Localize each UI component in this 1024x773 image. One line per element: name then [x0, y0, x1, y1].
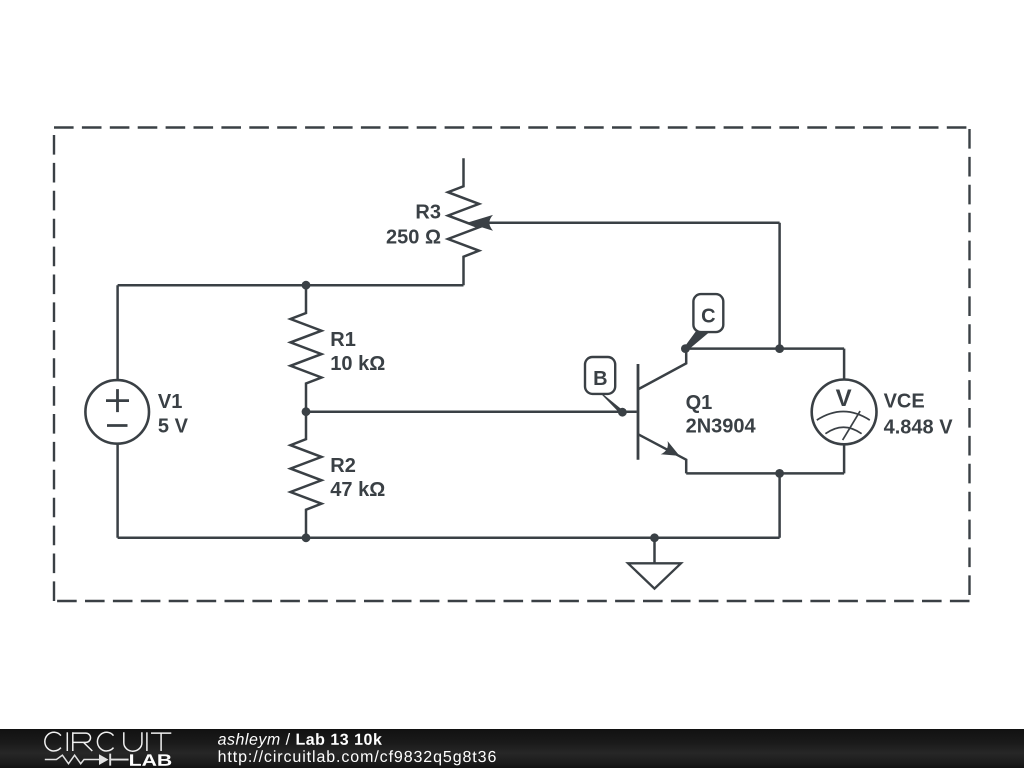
junction node base — [302, 407, 311, 416]
voltage source V1 — [85, 380, 149, 444]
wire emitter rail — [686, 472, 844, 475]
voltmeter VCE — [812, 380, 877, 445]
svg-text:http://circuitlab.com/cf9832q5: http://circuitlab.com/cf9832q5g8t36 — [218, 749, 498, 766]
wire V1 bottom lead — [116, 444, 119, 538]
node label B — [585, 357, 624, 414]
wire V1 top lead — [116, 285, 119, 379]
transistor Q1 — [638, 349, 686, 474]
junction node R2 bottom — [302, 533, 311, 542]
ground — [628, 538, 681, 589]
node label C — [684, 294, 723, 350]
junction node wiper-collector — [775, 344, 784, 353]
wire top rail node A — [118, 284, 464, 287]
potentiometer R3 — [448, 158, 493, 285]
wire collector rail — [685, 347, 844, 350]
wire wiper drop vertical — [778, 223, 781, 349]
svg-text:LAB: LAB — [129, 752, 173, 768]
wire voltmeter top lead — [843, 349, 846, 380]
logo resistor-diode squiggle — [45, 754, 129, 766]
dashed selection border — [54, 128, 970, 602]
resistor R2 — [291, 412, 322, 538]
wire base rail — [306, 410, 637, 413]
junction node R1 top — [302, 281, 311, 290]
junction node ground — [650, 533, 659, 542]
junction node B pin — [618, 408, 627, 417]
junction node C pin — [681, 344, 690, 353]
logo CIRCUIT — [45, 732, 171, 751]
junction node emitter rail — [775, 469, 784, 478]
wire bottom rail — [118, 537, 780, 540]
footer bar — [0, 729, 1024, 768]
wire voltmeter bottom lead — [843, 445, 846, 474]
wire R3 wiper horizontal — [488, 222, 780, 225]
wire emitter drop — [778, 473, 781, 537]
svg-text:ashleym / Lab 13 10k: ashleym / Lab 13 10k — [218, 732, 383, 749]
resistor R1 — [291, 285, 322, 412]
